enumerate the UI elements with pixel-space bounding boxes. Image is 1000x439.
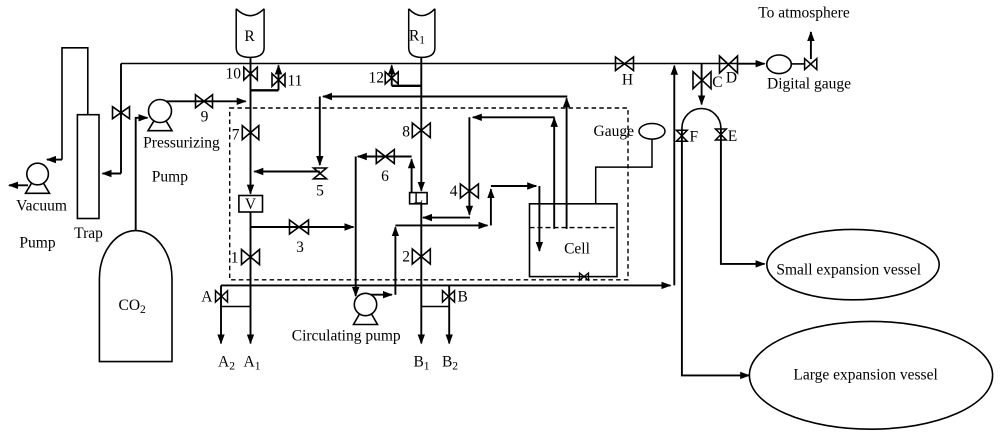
wire valve 5 to R line [254, 171, 319, 173]
wire topline to trap (through valve) [120, 64, 122, 174]
svg-text:10: 10 [226, 65, 242, 82]
svg-text:2: 2 [402, 249, 410, 266]
valve A [216, 291, 228, 302]
svg-text:Pump: Pump [19, 235, 55, 252]
svg-text:Pressurizing: Pressurizing [143, 134, 220, 151]
valve 1 [242, 250, 260, 265]
cell liquid level [530, 227, 618, 229]
valve (vent, after digital gauge) [805, 59, 817, 70]
wire valve D to digital gauge [738, 63, 765, 65]
wire R1 line lower (L box to B1) [420, 204, 422, 344]
svg-text:R: R [244, 28, 255, 45]
L box [410, 193, 428, 204]
valve 6 [376, 150, 394, 164]
wire F leg to large vessel [682, 128, 749, 375]
svg-text:R1: R1 [409, 28, 425, 47]
svg-text:Pump: Pump [152, 169, 188, 186]
arch (to expansion vessels) [682, 109, 721, 129]
svg-text:V: V [245, 196, 257, 213]
svg-text:To atmosphere: To atmosphere [758, 4, 850, 21]
wire R line lower (V box to A1) [250, 212, 252, 343]
gauge (cell) [639, 124, 665, 140]
large expansion vessel [749, 321, 992, 429]
wire B stub [448, 285, 450, 343]
svg-text:E: E [728, 128, 737, 145]
vacuum pump P1 [26, 163, 50, 193]
svg-text:Circulating pump: Circulating pump [292, 327, 401, 344]
svg-text:Digital gauge: Digital gauge [767, 76, 851, 93]
wire A crossbar [221, 306, 251, 308]
wire valve 4 topleg [468, 117, 470, 198]
wire valve 6 line [358, 156, 412, 158]
svg-text:Vacuum: Vacuum [16, 197, 67, 214]
valve (cell bottom drain) [580, 273, 589, 280]
wire cell riser to valve 4 line [553, 118, 555, 229]
valve 5 [314, 168, 327, 179]
digital gauge [767, 55, 792, 74]
wire to atmosphere [810, 32, 812, 59]
svg-text:5: 5 [316, 183, 324, 200]
valve 9 [196, 95, 213, 108]
wire riser to circulating pump [355, 157, 357, 297]
wire valve 11 branch [251, 89, 279, 91]
svg-text:Large expansion vessel: Large expansion vessel [793, 367, 937, 384]
wire line B (pump riser to cell) [395, 224, 487, 226]
tube R1 [409, 9, 435, 58]
wire B crossbar [421, 306, 449, 308]
svg-text:A1: A1 [244, 354, 261, 373]
wire gauge to cell [596, 139, 652, 204]
valve B [443, 291, 455, 302]
wire R1 line upper (tube to L box) [420, 57, 422, 190]
valve H [616, 57, 634, 71]
wire vacuum pump exhaust [9, 184, 28, 186]
wire valve C branch [701, 64, 703, 105]
svg-text:B1: B1 [413, 354, 429, 373]
wire valve 12 branch [392, 85, 422, 87]
wire R line upper (tube to V box) [250, 57, 252, 193]
svg-text:B: B [458, 289, 468, 306]
svg-text:3: 3 [296, 239, 304, 256]
svg-text:12: 12 [369, 70, 385, 87]
svg-text:11: 11 [288, 72, 303, 89]
svg-text:9: 9 [201, 109, 209, 126]
svg-text:Cell: Cell [564, 241, 590, 258]
valve 11 [272, 74, 285, 87]
wire valve 4 downleg [468, 198, 470, 215]
svg-text:H: H [622, 72, 633, 89]
svg-text:6: 6 [381, 168, 389, 185]
svg-text:CO2: CO2 [119, 297, 147, 316]
small expansion vessel [767, 229, 939, 299]
valve 12 [385, 72, 398, 84]
wire E leg to small vessel [721, 128, 765, 264]
svg-text:Trap: Trap [74, 225, 103, 242]
svg-text:Gauge: Gauge [594, 123, 635, 140]
valve 8 [412, 123, 430, 138]
wire main bottom line [221, 284, 671, 286]
svg-text:Small expansion vessel: Small expansion vessel [776, 262, 921, 279]
valve 10 [244, 67, 257, 80]
valve 7 [242, 126, 258, 140]
wire digital gauge to vent valve [791, 63, 805, 65]
tube R [236, 9, 264, 58]
pressurizing pump P2 [148, 100, 172, 131]
top long wire [121, 63, 738, 65]
wire right riser [673, 66, 675, 286]
dashed equipment box [230, 108, 628, 280]
valve C [693, 72, 711, 89]
valve 2 [412, 249, 430, 264]
wire valve 3 branch [251, 226, 354, 228]
circulating pump P3 [354, 293, 378, 324]
svg-text:A2: A2 [218, 354, 235, 373]
svg-text:D: D [726, 70, 737, 87]
valve F [676, 130, 687, 141]
valve D [720, 56, 738, 73]
svg-text:F: F [690, 129, 699, 146]
V box [239, 196, 263, 213]
wire A stub [220, 285, 222, 343]
wire CO2 to pressurizing pump [136, 118, 148, 231]
svg-text:8: 8 [402, 124, 410, 141]
svg-text:A: A [201, 289, 213, 306]
wire circulating pump discharge [371, 294, 392, 296]
wire line A (R1 to valve 4 downleg) [423, 217, 470, 219]
cell vessel [530, 204, 618, 277]
wire column to vacuum pump [47, 159, 62, 161]
svg-text:4: 4 [450, 183, 458, 200]
wire L box to valve 6 line [411, 159, 413, 192]
svg-text:7: 7 [232, 126, 240, 143]
valve E [716, 129, 727, 140]
wire pressurizing pump to R line [166, 100, 246, 102]
valve 3 [290, 220, 309, 234]
wire valve 5 feed (cell riser to valve 5) [566, 98, 568, 229]
trap vessel [77, 115, 99, 219]
svg-text:1: 1 [231, 250, 239, 267]
valve 4 [460, 184, 478, 198]
valve (trap line, unlabeled) [113, 107, 130, 119]
svg-text:B2: B2 [442, 354, 458, 373]
column (narrow vertical vessel, top-left) [62, 48, 88, 160]
svg-text:C: C [712, 74, 722, 91]
CO2 cylinder [99, 231, 172, 362]
